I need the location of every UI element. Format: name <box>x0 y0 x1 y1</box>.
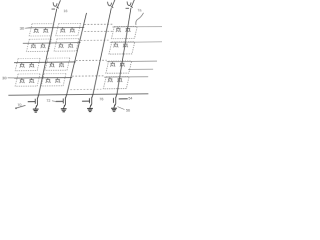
readout transistor Q1 <box>28 95 39 109</box>
row select line 3 (wire, solid right segment) <box>107 60 157 63</box>
transistor in cell R2C4 (left device) <box>113 43 118 48</box>
transistor in cell R1C2 (left device) <box>60 28 65 33</box>
source arrowhead of transistor Q4 <box>114 104 115 105</box>
transistor in cell R1C1 (left device) <box>34 28 39 33</box>
ground symbol under transistor Q4 <box>111 108 117 111</box>
row select line 3 (wire, dashed continuation across gap) <box>76 59 107 61</box>
auxiliary line of row 1 (wire, dashed continuation across gap) <box>84 30 112 32</box>
row select line 1 (wire, solid right segment) <box>112 25 162 28</box>
readout transistor Q2 <box>56 95 67 109</box>
transistor in cell R4C4 (right device) <box>117 77 122 82</box>
row select line 2 (wire, dashed continuation across gap) <box>80 39 109 41</box>
transistor in cell R4C2 (left device) <box>46 78 51 83</box>
column data line 4 (wire, slanted) <box>116 8 132 95</box>
column terminal symbol at top of column col1 <box>51 0 60 9</box>
transistor in cell R2C1 (right device) <box>41 43 46 48</box>
output select line (wire, bottom) <box>8 94 148 95</box>
transistor in cell R3C1 (left device) <box>20 63 25 68</box>
pixel cell R4C4 (dashed parallelogram box) <box>103 76 129 88</box>
column data line 1 (wire, slanted) <box>38 9 58 96</box>
source arrowhead of transistor Q1 <box>36 105 37 106</box>
row select line 1 (wire, solid left segment) <box>29 26 85 29</box>
pixel cell R1C1 (dashed parallelogram box) <box>29 24 54 36</box>
pixel cell R3C2 (dashed parallelogram box) <box>45 58 70 70</box>
readout transistor Q3 <box>82 94 93 108</box>
dashed continuation above output line (wire) <box>70 88 101 90</box>
svg-text:56: 56 <box>126 108 130 112</box>
pixel cell R1C2 (dashed parallelogram box) <box>56 23 81 35</box>
transistor in cell R4C2 (right device) <box>55 78 60 83</box>
transistor in cell R3C1 (right device) <box>29 63 34 68</box>
transistor in cell R1C1 (right device) <box>43 28 48 33</box>
transistor in cell R2C4 (right device) <box>123 42 128 47</box>
reference numeral 70 with leader pointing to gate of Q1 <box>15 107 17 109</box>
pixel cell R3C4 (dashed parallelogram box) <box>106 61 132 73</box>
pixel cell R4C1 (dashed parallelogram box) <box>15 74 40 86</box>
svg-text:54: 54 <box>128 96 132 100</box>
transistor in cell R3C2 (right device) <box>59 62 64 67</box>
column data line 3 (wire, slanted) <box>92 8 112 95</box>
pixel cell R1C4 (dashed parallelogram box) <box>111 26 137 38</box>
source arrowhead of transistor Q3 <box>90 104 91 105</box>
transistor in cell R4C1 (left device) <box>20 78 25 83</box>
row select line 1 (wire, dashed continuation across gap) <box>84 23 112 25</box>
pixel cell R2C1 (dashed parallelogram box) <box>26 39 51 51</box>
transistor in cell R2C1 (left device) <box>31 43 36 48</box>
transistor in cell R2C2 (left device) <box>59 43 64 48</box>
transistor in cell R4C4 (left device) <box>108 77 113 82</box>
column terminal symbol at top of column col4 <box>125 0 134 8</box>
transistor in cell R3C2 (left device) <box>49 62 54 67</box>
svg-text:72: 72 <box>46 99 50 103</box>
transistor in cell R1C4 (left device) <box>116 27 121 32</box>
transistor in cell R1C4 (right device) <box>125 27 130 32</box>
row select line 4 (wire, solid left segment) <box>14 76 72 79</box>
transistor in cell R4C1 (right device) <box>29 78 34 83</box>
transistor in cell R2C2 (right device) <box>68 43 73 48</box>
pixel cell R2C2 (dashed parallelogram box) <box>54 39 79 51</box>
column data line 2 (wire, slanted) <box>66 13 88 95</box>
svg-text:76: 76 <box>99 97 103 101</box>
source arrowhead of transistor Q2 <box>64 105 65 106</box>
row select line 4 (wire, dashed continuation across gap) <box>72 75 104 77</box>
transistor in cell R1C2 (right device) <box>70 28 75 33</box>
readout transistor Q4 <box>113 94 127 108</box>
transistor in cell R3C4 (right device) <box>120 62 125 67</box>
row select line 2 (wire, solid right segment) <box>110 41 163 44</box>
column terminal symbol at top of column col3 <box>108 0 115 8</box>
ground symbol under transistor Q2 <box>61 109 67 112</box>
reference numeral 56 with leader from source of Q4 <box>117 107 124 110</box>
pixel cell R3C1 (dashed parallelogram box) <box>15 58 40 70</box>
auxiliary line of row 3 (wire, right edge stub) <box>128 68 153 70</box>
pixel cell R2C4 (dashed parallelogram box) <box>109 42 135 54</box>
ground symbol under transistor Q1 <box>33 109 39 112</box>
ground symbol under transistor Q3 <box>87 108 93 111</box>
transistor in cell R3C4 (left device) <box>110 62 115 67</box>
svg-text:70: 70 <box>17 103 21 107</box>
svg-text:7a: 7a <box>137 8 141 12</box>
row select line 4 (wire, solid right segment) <box>104 76 148 78</box>
row select line 3 (wire, solid left segment) <box>14 61 76 64</box>
row select line 2 (wire, solid left segment) <box>23 42 81 45</box>
curved leader line for reference numeral near top right <box>136 13 144 25</box>
svg-text:16: 16 <box>63 9 67 13</box>
pixel cell R4C2 (dashed parallelogram box) <box>41 74 66 86</box>
